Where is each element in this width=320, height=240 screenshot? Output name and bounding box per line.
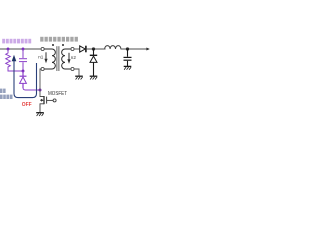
label regenerated current (navy, 2 lines) [0,89,13,99]
transformer T1 primary terminal top [41,47,44,50]
transformer T1 secondary winding [62,49,71,69]
current arrow primary winding [44,52,47,63]
transformer core [57,46,59,71]
node output cap junction [126,47,129,50]
ground G4 (output cap) [124,66,132,69]
label forward transformer (フォワードトランス) [40,37,78,42]
diode D1 snubber (cathode up) [20,71,27,88]
output arrow [146,48,149,51]
capacitor C2 output [124,49,132,66]
wire primary bottom to drain [40,69,44,97]
wire rectifier to inductor [87,48,106,50]
wire secondary bottom to ground [74,69,79,76]
svg-text:n2: n2 [71,55,77,60]
ground G3 (freewheel diode) [90,76,98,79]
capacitor C snubber [19,49,27,71]
ground G2 (secondary return) [75,76,83,79]
wire input top rail [0,48,41,50]
MOSFET gate lead and terminal [47,99,53,101]
node snubber RC bottom junction [22,70,25,73]
MOSFET Q1 [40,96,47,113]
svg-text:MOSFET: MOSFET [48,91,67,97]
svg-text:OFF: OFF [22,102,32,108]
polarity dot primary [52,44,54,46]
node freewheel junction [92,47,95,50]
svg-text:n1: n1 [38,55,44,60]
current arrow secondary winding [67,53,70,64]
wire secondary top to rectifier [74,48,79,50]
transformer T1 primary terminal bottom [41,67,44,70]
current loop arrow (snubber reset current) [12,55,37,98]
wire snubber to drain [23,88,40,91]
node snubber drain junction [39,89,42,92]
wire snubber bottom [8,70,23,73]
label snubber (リセット型スナバ) [2,39,31,44]
wire inductor to output [121,48,150,50]
ground G1 (MOSFET source) [36,113,44,116]
node snubber C top junction [22,48,25,51]
diode D3 freewheel (cathode up) [90,49,97,76]
transformer T1 secondary terminal top [71,47,74,50]
diode D2 rectifier [80,46,86,53]
resistor R snubber [6,49,11,71]
inductor L1 [105,46,121,49]
transformer T1 primary winding [44,49,55,69]
transformer T1 secondary terminal bottom [71,67,74,70]
polarity dot secondary [62,44,64,46]
node snubber R top junction [7,48,10,51]
